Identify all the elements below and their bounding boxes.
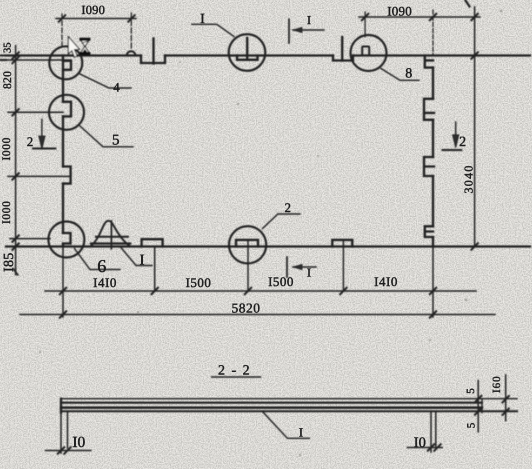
dim 1090 right ext lines [364, 12, 366, 37]
bell detail on bottom wall [91, 221, 130, 247]
leader for bell 1 [121, 247, 153, 266]
svg-text:35: 35 [3, 43, 14, 54]
slab line 2 [61, 402, 482, 404]
right wall [432, 68, 434, 247]
bottom dims row 2 line (5820) [20, 314, 495, 316]
section flag 2 right [455, 122, 457, 145]
bottom wall notch A extension [154, 247, 156, 292]
bottom wall notch A [142, 239, 163, 246]
leader for slab 1 [263, 412, 310, 438]
top wall notch right [333, 56, 353, 61]
right wall top corner joint [425, 56, 433, 68]
left wall [62, 56, 64, 247]
svg-text:5820: 5820 [232, 301, 261, 316]
svg-text:I000: I000 [1, 201, 13, 224]
right 5/5 dim line [477, 381, 479, 432]
svg-text:I: I [140, 253, 145, 269]
bell center line [110, 221, 112, 249]
right wall joint 1 [424, 99, 434, 120]
svg-text:I000: I000 [1, 137, 13, 160]
left dim column line [15, 46, 17, 275]
dim 1090 right ticks [362, 14, 478, 20]
right wall bottom ext to edge [433, 246, 530, 248]
dim 1090 left ticks [59, 15, 135, 21]
svg-text:5: 5 [465, 388, 477, 394]
svg-text:I090: I090 [81, 3, 105, 17]
svg-text:2: 2 [459, 135, 466, 150]
section flag 2 left [41, 119, 43, 147]
svg-text:I: I [200, 12, 205, 27]
svg-text:3040: 3040 [462, 164, 476, 193]
left 10 ext lines [61, 413, 68, 453]
scan artifact top right [466, 1, 470, 7]
tab in circle 8 [362, 47, 369, 56]
slab left end [60, 399, 62, 413]
section flag 1 bottom [286, 257, 288, 277]
right wall extension down [432, 247, 434, 318]
callout circle 8 [351, 35, 387, 71]
leader for 6 [75, 249, 121, 270]
joint bracket in circle U1 [237, 56, 258, 60]
right column ticks [471, 52, 477, 249]
bottom wall notch B stub [342, 240, 344, 291]
bell crossbar [96, 236, 128, 238]
right 160 dim line [505, 375, 507, 421]
busy cursor arrow [68, 37, 79, 58]
svg-text:2 - 2: 2 - 2 [218, 364, 251, 379]
callout circle 2 [229, 226, 266, 263]
svg-text:I: I [307, 13, 311, 27]
dim 1090 left ext lines [61, 14, 63, 47]
right wall top ext to edge [433, 55, 530, 57]
bottom wall [6, 245, 530, 247]
svg-text:I: I [299, 426, 303, 440]
svg-text:I500: I500 [268, 274, 294, 289]
left dim column end arrow [14, 269, 18, 275]
dim line 1000/1000 [8, 175, 71, 177]
left wall joint at circle 6 [63, 233, 71, 244]
svg-text:4: 4 [113, 79, 120, 94]
bottom dims row 1 line [45, 290, 476, 292]
160 ticks [503, 396, 509, 415]
right 10 dim line [407, 447, 442, 449]
svg-text:I0: I0 [414, 435, 426, 451]
callout circle 6 [48, 222, 84, 258]
svg-text:2: 2 [285, 200, 292, 215]
top wall stub left [152, 39, 154, 64]
left 10 ticks [58, 447, 71, 453]
top wall stub right [341, 37, 343, 61]
joint bracket in circle 2 [236, 240, 258, 247]
dim line y55.5 stub [6, 59, 71, 61]
right dim column line [474, 7, 476, 247]
svg-text:I090: I090 [387, 4, 412, 19]
leader for top 1 [192, 24, 234, 36]
top wall [6, 54, 530, 56]
row2 ticks [60, 311, 436, 317]
slab line bottom [61, 410, 517, 412]
callout circle 4 [49, 46, 82, 79]
5/5 ticks [475, 396, 481, 415]
svg-text:5: 5 [466, 422, 478, 428]
left ticks [12, 52, 18, 250]
joint stub in circle 2 [247, 240, 249, 291]
leader for 2 [263, 214, 301, 229]
scan artifact left edge [1, 56, 7, 61]
title underline [212, 376, 261, 378]
leader for 8 [381, 69, 419, 81]
corner bracket in circle 4 [63, 61, 71, 70]
svg-text:820: 820 [2, 71, 14, 89]
slab line 3 [61, 406, 482, 409]
leader for 5 [80, 126, 134, 147]
right wall joint 2 [424, 157, 434, 176]
leader for 4 [80, 74, 131, 88]
busy cursor hourglass [80, 38, 90, 54]
svg-text:2: 2 [27, 134, 34, 149]
callout circle 5 [49, 95, 84, 130]
left 10 dim line [46, 450, 91, 452]
svg-text:I: I [307, 266, 311, 280]
dim 1090 left line [56, 18, 136, 20]
right wall bottom corner joint [425, 226, 433, 237]
row1 ticks [60, 288, 436, 294]
svg-text:I4I0: I4I0 [374, 274, 398, 289]
slab right end [481, 399, 483, 413]
right 10 ticks [428, 444, 441, 450]
dim line 820/1000 [8, 111, 63, 113]
left wall extension down [62, 247, 64, 318]
top wall notch left [141, 56, 165, 64]
lifting dome on top wall [127, 51, 136, 55]
bottom wall notch B [332, 240, 352, 247]
svg-text:I60: I60 [491, 375, 503, 393]
bell base line [91, 242, 130, 244]
svg-text:I4I0: I4I0 [93, 275, 117, 290]
dim line 1000/185 [10, 238, 50, 240]
svg-text:I85: I85 [2, 252, 17, 272]
left wall mid joint [63, 167, 71, 184]
left wall joint at circle 5 [63, 102, 71, 117]
dim 1090 right line [359, 16, 480, 18]
svg-text:6: 6 [97, 256, 106, 276]
svg-text:5: 5 [112, 133, 120, 149]
svg-text:I500: I500 [186, 275, 212, 290]
right 10 ext lines [431, 412, 436, 452]
svg-text:8: 8 [405, 67, 412, 82]
callout circle top (node 1) [229, 34, 266, 71]
slab line top [61, 398, 517, 400]
joint stub in circle U1 [246, 38, 248, 60]
section flag 1 top [288, 19, 290, 43]
svg-text:I0: I0 [72, 434, 85, 451]
